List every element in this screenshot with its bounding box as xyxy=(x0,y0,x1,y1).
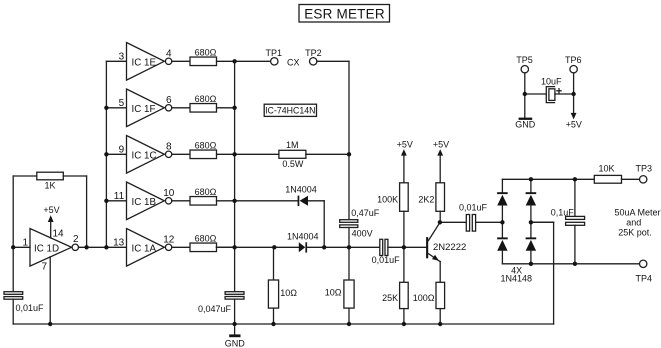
svg-text:1K: 1K xyxy=(44,181,55,191)
svg-text:0,01uF: 0,01uF xyxy=(16,303,45,313)
svg-text:400V: 400V xyxy=(352,228,373,238)
svg-text:10Ω: 10Ω xyxy=(280,288,297,298)
svg-text:1N4004: 1N4004 xyxy=(285,185,317,195)
svg-text:0,01uF: 0,01uF xyxy=(459,203,488,213)
svg-text:10Ω: 10Ω xyxy=(325,288,342,298)
svg-text:TP4: TP4 xyxy=(636,274,653,284)
svg-text:+5V: +5V xyxy=(566,120,582,130)
svg-text:100K: 100K xyxy=(377,195,398,205)
svg-text:0,047uF: 0,047uF xyxy=(198,304,232,314)
svg-text:CX: CX xyxy=(287,57,300,67)
svg-text:0,47uF: 0,47uF xyxy=(351,208,380,218)
svg-text:0.5W: 0.5W xyxy=(282,159,304,169)
svg-text:3: 3 xyxy=(119,52,125,63)
svg-text:6: 6 xyxy=(166,95,172,106)
svg-text:5: 5 xyxy=(119,98,125,109)
svg-text:680Ω: 680Ω xyxy=(195,141,217,151)
svg-text:GND: GND xyxy=(225,339,246,348)
svg-text:2K2: 2K2 xyxy=(418,195,434,205)
svg-text:+5V: +5V xyxy=(433,139,449,149)
svg-text:10K: 10K xyxy=(598,164,614,174)
svg-text:+5V: +5V xyxy=(43,205,59,215)
svg-text:680Ω: 680Ω xyxy=(195,48,217,58)
svg-text:13: 13 xyxy=(113,238,125,249)
svg-text:680Ω: 680Ω xyxy=(195,187,217,197)
svg-text:1N4148: 1N4148 xyxy=(501,273,533,283)
svg-text:TP3: TP3 xyxy=(636,164,653,174)
svg-text:4: 4 xyxy=(166,49,172,60)
svg-text:25K: 25K xyxy=(382,293,398,303)
svg-text:14: 14 xyxy=(53,229,65,240)
svg-text:IC 1F: IC 1F xyxy=(132,104,156,115)
svg-text:10: 10 xyxy=(163,188,175,199)
svg-text:IC 1A: IC 1A xyxy=(132,244,157,255)
svg-text:680Ω: 680Ω xyxy=(195,234,217,244)
svg-text:50uA Meter: 50uA Meter xyxy=(614,208,660,218)
svg-text:ESR METER: ESR METER xyxy=(304,6,385,21)
svg-text:TP5: TP5 xyxy=(516,55,533,65)
svg-text:1M: 1M xyxy=(286,140,299,150)
svg-text:1N4004: 1N4004 xyxy=(287,231,319,241)
svg-text:IC 1C: IC 1C xyxy=(132,151,157,162)
svg-text:100Ω: 100Ω xyxy=(413,293,435,303)
svg-text:IC 1E: IC 1E xyxy=(132,58,157,69)
svg-text:12: 12 xyxy=(163,235,175,246)
svg-text:11: 11 xyxy=(114,191,125,202)
svg-text:TP1: TP1 xyxy=(266,48,283,58)
svg-text:0,1uF: 0,1uF xyxy=(551,207,575,217)
svg-text:2N2222: 2N2222 xyxy=(433,242,466,253)
svg-text:680Ω: 680Ω xyxy=(195,94,217,104)
svg-text:7: 7 xyxy=(41,262,47,273)
svg-text:25K pot.: 25K pot. xyxy=(618,228,652,238)
svg-text:2: 2 xyxy=(73,234,79,245)
svg-text:GND: GND xyxy=(515,120,536,130)
svg-text:TP2: TP2 xyxy=(305,48,322,58)
svg-text:IC 1B: IC 1B xyxy=(132,197,157,208)
svg-text:8: 8 xyxy=(166,142,172,153)
svg-text:0,01uF: 0,01uF xyxy=(372,255,401,265)
svg-text:10uF: 10uF xyxy=(541,76,562,86)
svg-text:TP6: TP6 xyxy=(565,55,582,65)
svg-text:9: 9 xyxy=(119,145,125,156)
svg-text:and: and xyxy=(626,218,641,228)
svg-text:+5V: +5V xyxy=(397,139,413,149)
svg-text:IC-74HC14N: IC-74HC14N xyxy=(265,106,315,116)
svg-text:IC 1D: IC 1D xyxy=(34,244,59,255)
